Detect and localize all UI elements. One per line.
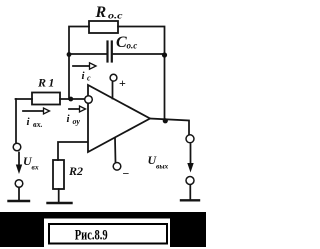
svg-text:оу: оу <box>73 117 81 126</box>
svg-text:+: + <box>119 76 126 90</box>
svg-text:R 1: R 1 <box>37 76 54 90</box>
svg-text:Рис.8.9: Рис.8.9 <box>75 228 108 244</box>
svg-text:вых: вых <box>156 162 169 171</box>
svg-text:вх.: вх. <box>33 120 43 129</box>
svg-text:−: − <box>123 167 130 181</box>
svg-text:о.с: о.с <box>127 41 138 51</box>
svg-text:C: C <box>116 34 127 51</box>
svg-text:с: с <box>87 74 91 83</box>
svg-text:i: i <box>82 70 86 82</box>
svg-text:i: i <box>27 116 31 128</box>
svg-text:i: i <box>67 113 71 125</box>
svg-text:вх: вх <box>32 163 39 172</box>
svg-text:R: R <box>95 4 107 21</box>
svg-text:R2: R2 <box>68 164 83 178</box>
svg-text:о.с: о.с <box>108 11 123 21</box>
